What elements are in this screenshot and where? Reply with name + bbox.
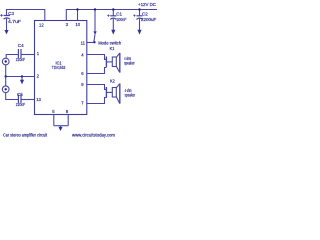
node junction pin10/bus bbox=[76, 8, 78, 10]
svg-text:speaker: speaker bbox=[124, 60, 135, 65]
ground (C2) bbox=[137, 30, 141, 35]
svg-text:K2: K2 bbox=[110, 79, 115, 84]
input jack J2 bbox=[2, 86, 18, 100]
wire pin 7 to speaker K2 bbox=[87, 98, 106, 104]
wire pin 4 to speaker K1 bbox=[87, 55, 106, 60]
wire C5 to pin 13 bbox=[21, 99, 34, 101]
svg-text:C5: C5 bbox=[17, 92, 23, 97]
svg-text:C4: C4 bbox=[18, 43, 24, 48]
svg-text:100nF: 100nF bbox=[116, 17, 126, 22]
svg-text:speaker: speaker bbox=[125, 93, 136, 98]
capacitor C3 bbox=[0, 11, 21, 30]
svg-text:2200uF: 2200uF bbox=[141, 17, 156, 22]
ground (input common) bbox=[20, 77, 24, 85]
capacitor C5 bbox=[16, 92, 26, 107]
wire ground connector bbox=[54, 125, 68, 127]
wire pin 8 to ground bbox=[67, 115, 69, 126]
svg-text:220nF: 220nF bbox=[16, 57, 26, 62]
node junction ground branch bbox=[21, 75, 23, 77]
svg-text:12: 12 bbox=[39, 22, 44, 27]
capacitor C1 bbox=[107, 8, 126, 30]
svg-text:4.7uF: 4.7uF bbox=[8, 19, 21, 24]
wire jack J1 to ground bus bbox=[5, 65, 7, 76]
wire C4 to pin 1 bbox=[21, 54, 34, 56]
node junction switch/bus bbox=[94, 8, 96, 10]
ground (C1) bbox=[111, 30, 115, 35]
wire pin 9 to speaker K2 bbox=[87, 85, 106, 90]
svg-text:Car stereo amplifier circuit: Car stereo amplifier circuit bbox=[3, 132, 48, 137]
svg-text:K1: K1 bbox=[110, 46, 115, 51]
mode switch S1 bbox=[87, 31, 122, 45]
node junction jack column bbox=[5, 75, 7, 77]
wire C3 top to pin 12 bbox=[7, 10, 45, 21]
supply bus wire +12V bbox=[66, 10, 157, 21]
input jack J1 bbox=[2, 55, 18, 65]
svg-text:C3: C3 bbox=[8, 11, 14, 16]
svg-text:10: 10 bbox=[75, 22, 80, 27]
svg-text:11: 11 bbox=[81, 41, 86, 46]
speaker K1 bbox=[106, 46, 135, 73]
svg-text:C1: C1 bbox=[116, 12, 122, 17]
ground (IC pins 5,8) bbox=[58, 126, 62, 131]
ground (C3) bbox=[4, 30, 8, 34]
svg-text:13: 13 bbox=[36, 97, 41, 102]
wire pin 10 bbox=[77, 10, 79, 21]
svg-text:www.circuitstoday.com: www.circuitstoday.com bbox=[72, 132, 115, 137]
capacitor C2 bbox=[133, 8, 156, 30]
svg-text:+12V DC: +12V DC bbox=[138, 2, 156, 7]
wire pin 5 to ground bbox=[53, 115, 55, 126]
IC U1 TDA1553 body bbox=[35, 21, 87, 115]
svg-text:C2: C2 bbox=[142, 12, 148, 17]
wire pin 6 to speaker K1 bbox=[87, 68, 106, 74]
capacitor C4 bbox=[16, 43, 26, 62]
speaker K2 bbox=[106, 79, 135, 104]
wire common down to jack J2 bbox=[5, 77, 7, 87]
svg-text:220nF: 220nF bbox=[16, 102, 26, 107]
wire bus to mode switch bbox=[94, 10, 96, 33]
wire common to pin 2 bbox=[6, 76, 35, 78]
svg-text:TDA1553: TDA1553 bbox=[52, 65, 66, 70]
